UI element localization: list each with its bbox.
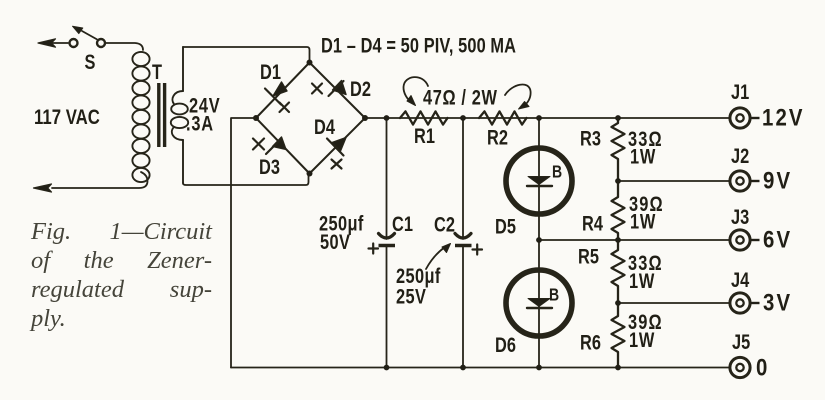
resistor R1 (400, 111, 448, 124)
resistor chain R5 (612, 240, 625, 303)
svg-text:1W: 1W (629, 328, 655, 351)
svg-text:J4: J4 (731, 268, 750, 291)
svg-text:J2: J2 (731, 144, 749, 167)
annotation arrow to R1 (403, 77, 428, 105)
svg-text:R3: R3 (580, 127, 601, 150)
svg-text:1W: 1W (630, 145, 656, 168)
svg-text:6V: 6V (763, 226, 792, 253)
svg-text:R1: R1 (414, 124, 435, 147)
svg-text:R2: R2 (487, 126, 508, 149)
jack J3 (730, 230, 750, 250)
capacitor C1 (369, 118, 396, 368)
node dots on rails (384, 115, 621, 370)
wire: bottom rail to J5 (231, 367, 730, 369)
diode D4 (327, 138, 346, 169)
wire: secondary bottom to bridge bottom (183, 174, 309, 186)
diode D1 (265, 82, 289, 112)
wire: switch to transformer primary (106, 43, 144, 50)
wire: AC lead arrow top-left (38, 39, 68, 47)
resistor chain R4 (612, 181, 625, 240)
svg-text:1W: 1W (630, 210, 656, 233)
svg-text:J3: J3 (731, 205, 749, 228)
wire: AC lead arrow bottom-left (34, 172, 148, 192)
jack J4 (730, 293, 750, 313)
svg-text:D4: D4 (314, 115, 335, 138)
bridge rectifier diamond wires (256, 63, 365, 174)
label -9V (751, 180, 760, 182)
svg-text:D3: D3 (259, 155, 280, 178)
svg-text:D2: D2 (350, 77, 371, 100)
wire: R5/R6 node to J4 (618, 302, 730, 304)
label -3V (751, 302, 760, 304)
resistor R2 (479, 111, 527, 124)
svg-text:S: S (85, 50, 96, 73)
label -6V (751, 239, 760, 241)
svg-text:117 VAC: 117 VAC (34, 106, 100, 129)
svg-text:0: 0 (756, 354, 767, 381)
transformer T primary winding (132, 52, 149, 182)
svg-text:9V: 9V (763, 167, 792, 194)
svg-text:R5: R5 (578, 245, 599, 268)
svg-text:R4: R4 (582, 212, 603, 235)
svg-text:B: B (549, 285, 559, 305)
transformer T core (159, 83, 165, 147)
svg-text:B: B (552, 162, 562, 182)
svg-text:R6: R6 (580, 331, 601, 354)
transformer T secondary winding (171, 47, 188, 183)
svg-text:D1: D1 (260, 60, 281, 83)
figure caption (31, 217, 212, 333)
svg-text:D6: D6 (495, 333, 516, 356)
svg-text:T: T (152, 60, 162, 83)
annotation arrow to C2 value (426, 244, 451, 270)
svg-text:D1 – D4 = 50 PIV, 500 MA: D1 – D4 = 50 PIV, 500 MA (321, 34, 516, 57)
svg-text:47Ω / 2W: 47Ω / 2W (423, 86, 498, 109)
svg-text:50V: 50V (320, 230, 350, 253)
annotation arrow to R2 (505, 84, 531, 109)
wire: bridge right corner along top rail to J1 (365, 117, 730, 119)
label -12V (751, 117, 760, 119)
zener diode D5 (506, 118, 572, 240)
diode D2 (312, 81, 346, 97)
wire: zener midpoint row to J3 (539, 239, 730, 241)
svg-text:D5: D5 (495, 215, 516, 238)
svg-text:3V: 3V (763, 289, 792, 316)
svg-text:.3A: .3A (186, 112, 214, 135)
jack J1 (730, 108, 750, 128)
diode D3 (253, 137, 286, 154)
resistor chain R3 (612, 118, 625, 181)
jack J2 (730, 171, 750, 191)
jack J5 (730, 357, 750, 377)
svg-text:25V: 25V (396, 285, 426, 308)
svg-text:1W: 1W (629, 269, 655, 292)
wire: bridge left corner to DC minus drop (231, 118, 256, 368)
svg-text:J1: J1 (731, 80, 749, 103)
wire: secondary top to bridge top (183, 47, 310, 63)
svg-text:12V: 12V (762, 104, 805, 131)
resistor chain R6 (612, 303, 625, 368)
switch S (70, 26, 106, 47)
zener diode D6 (506, 240, 572, 368)
svg-text:J5: J5 (732, 330, 750, 353)
svg-text:C1: C1 (392, 212, 413, 235)
capacitor C2 (455, 118, 482, 368)
node: bridge corners (253, 60, 368, 177)
svg-text:C2: C2 (434, 213, 455, 236)
wire: R3/R4 node to J2 (618, 180, 730, 182)
